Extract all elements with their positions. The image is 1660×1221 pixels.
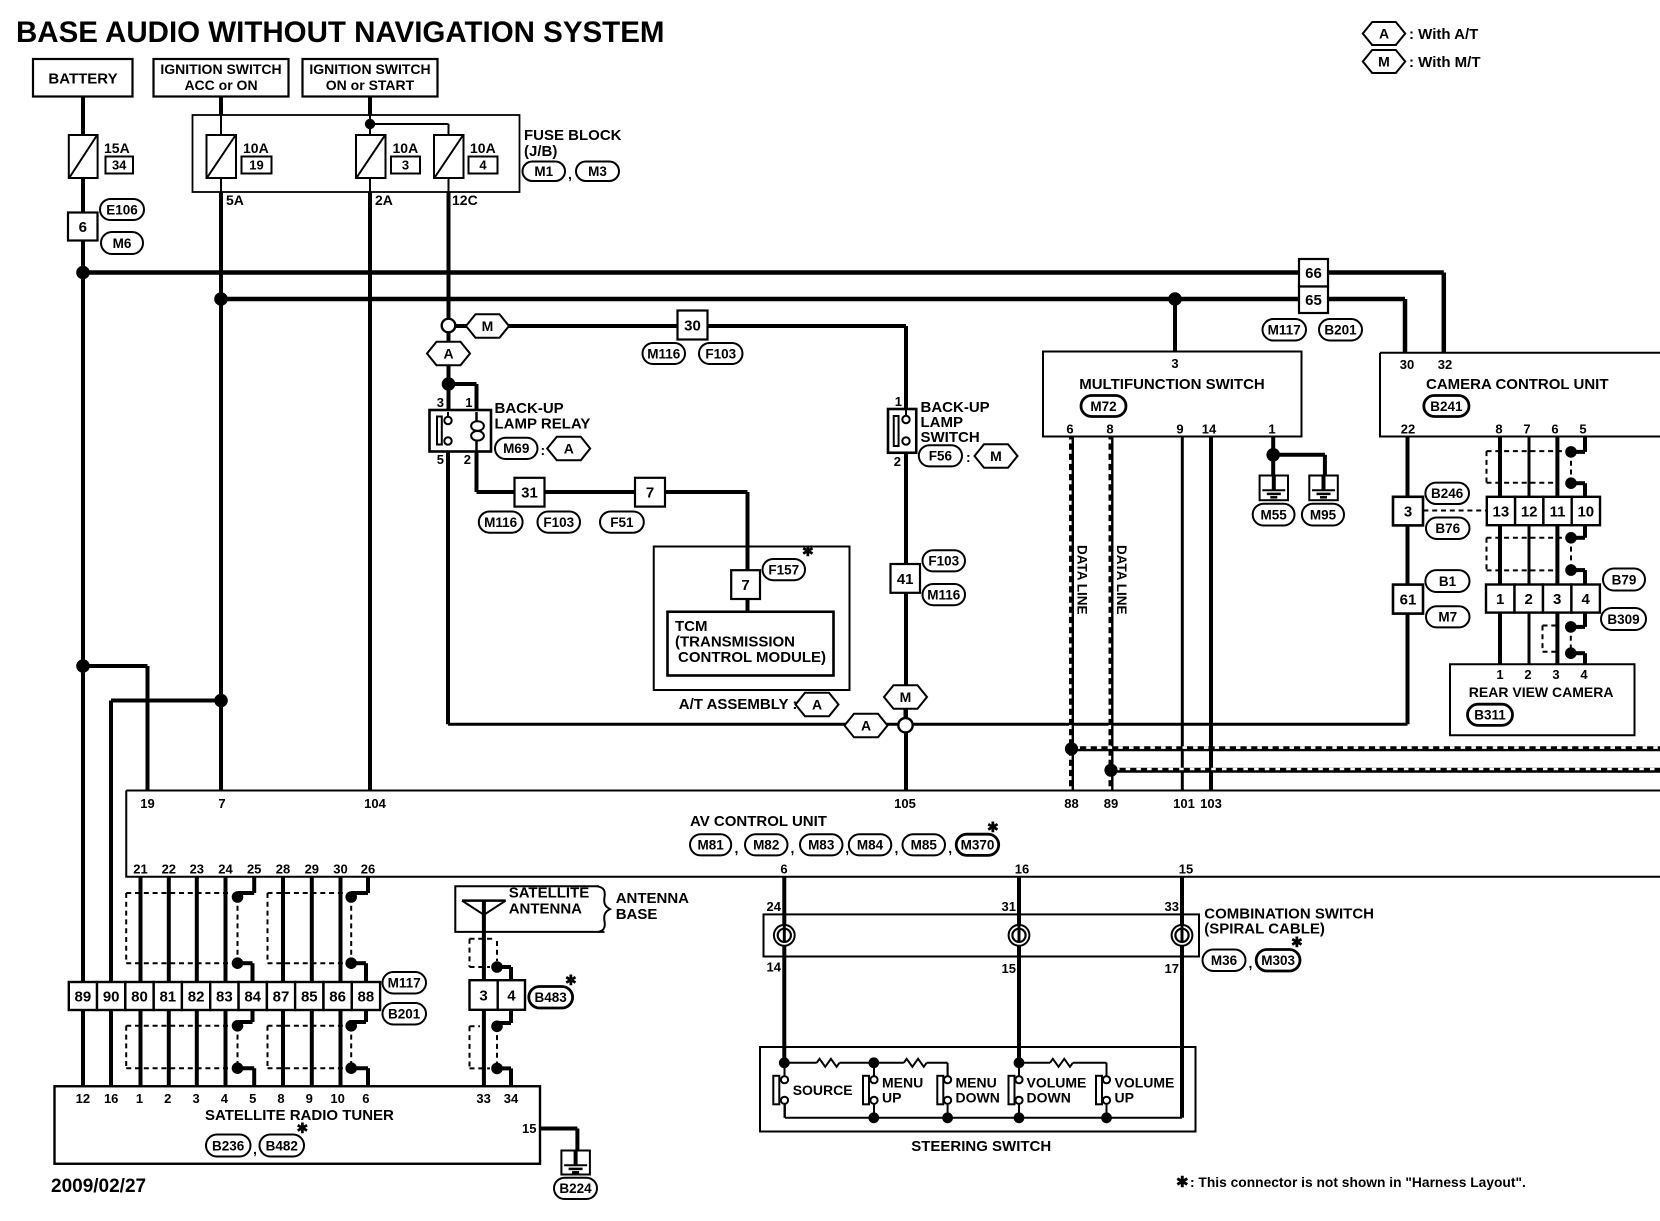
svg-text:86: 86: [329, 988, 346, 1005]
svg-text:1: 1: [895, 394, 902, 409]
spiral cable symbol 1: [774, 925, 795, 946]
svg-text:26: 26: [361, 862, 375, 877]
data line from multifunction pin6: [1069, 437, 1074, 791]
connector oval M116 (switch): [923, 584, 966, 605]
svg-text:B311: B311: [1474, 708, 1506, 723]
wire AV pin15 to combination switch pin33 and steering: [1180, 877, 1184, 1118]
switch VOLUME DOWN: [1009, 1076, 1015, 1105]
wire to tuner x=168.8: [167, 1010, 171, 1086]
wire 84-5 shield drain jog: [251, 1010, 255, 1022]
svg-text:84: 84: [244, 988, 261, 1005]
connector oval B241: [1424, 396, 1469, 417]
wire multifunction pin1 to grounds: [1271, 437, 1275, 477]
svg-text:ANTENNA: ANTENNA: [616, 890, 689, 907]
back-up lamp switch F56: [888, 409, 916, 453]
svg-text:10A: 10A: [393, 140, 419, 156]
connector row 89 90 80 81 82 83 84 87 85 86 88: [69, 982, 97, 1010]
fuse rating box 4: [469, 157, 498, 174]
svg-text:A/T ASSEMBLY :: A/T ASSEMBLY :: [679, 696, 798, 713]
svg-text:UP: UP: [882, 1090, 901, 1106]
svg-text:8: 8: [1495, 422, 1502, 437]
connector oval E106: [100, 199, 144, 220]
shield dashed box camera upper: [1487, 450, 1564, 452]
wire camera pin5 jog with shield drains: [1583, 437, 1587, 452]
wire ACC branch to x=111 down: [111, 699, 221, 703]
wire tuner pin15 to ground B224: [540, 1127, 577, 1131]
wire multifunction pin3 tap: [1173, 299, 1177, 352]
wire relay pin5 down and long horizontal y=724.25: [446, 452, 450, 725]
svg-text:34: 34: [112, 158, 127, 173]
svg-text:M: M: [990, 448, 1002, 464]
svg-text:30: 30: [333, 862, 347, 877]
svg-text:IGNITION SWITCH: IGNITION SWITCH: [309, 61, 430, 77]
wire relay pin2 to TCM: [475, 452, 479, 493]
connector oval M95: [1302, 504, 1344, 526]
svg-text:31: 31: [521, 485, 538, 502]
svg-text:A: A: [812, 697, 822, 713]
svg-text:,: ,: [948, 840, 952, 856]
spiral cable symbol 2: [1009, 925, 1030, 946]
shield dashed box tuner right: [268, 1025, 346, 1027]
junction dot ACC branch: [214, 694, 228, 708]
svg-text:MENU: MENU: [882, 1075, 923, 1091]
svg-text:B236: B236: [212, 1138, 245, 1153]
bus2 ACC y=299: [221, 297, 1405, 302]
svg-text:(SPIRAL CABLE): (SPIRAL CABLE): [1204, 921, 1325, 938]
svg-text:21: 21: [133, 862, 147, 877]
svg-text:104: 104: [364, 796, 386, 811]
wire to tuner x=311.8: [310, 1010, 314, 1086]
wire relay pin1 jog: [449, 382, 477, 386]
box 30 on M wire: [678, 311, 708, 340]
svg-text:2A: 2A: [375, 192, 393, 208]
svg-text:3: 3: [402, 158, 409, 173]
svg-text:88: 88: [1064, 796, 1078, 811]
connector row 13 12 11 10: [1487, 497, 1515, 525]
svg-text:M69: M69: [503, 441, 529, 456]
connector oval B79: [1603, 569, 1645, 591]
connector ovals M81 M82 M83 M84 M85 M370: [690, 834, 731, 855]
svg-text:,: ,: [1249, 955, 1253, 971]
fuse block (J/B) box: [193, 115, 520, 192]
svg-text:24: 24: [767, 899, 782, 914]
connector oval M116: [643, 343, 686, 364]
connector oval M36: [1203, 950, 1246, 972]
wire to tuner x=83.0: [81, 1010, 85, 1086]
svg-text:1: 1: [465, 395, 472, 410]
svg-text:B201: B201: [1324, 323, 1357, 338]
svg-text:14: 14: [767, 960, 782, 975]
svg-text:STEERING SWITCH: STEERING SWITCH: [911, 1138, 1051, 1155]
steering junction dots top: [779, 1057, 790, 1068]
svg-text:103: 103: [1200, 796, 1222, 811]
svg-text:ON or START: ON or START: [326, 77, 415, 93]
resistor R2: [874, 1062, 904, 1064]
connector oval M72: [1081, 396, 1126, 417]
svg-text:12C: 12C: [452, 192, 478, 208]
svg-text:34: 34: [504, 1091, 519, 1106]
wire antenna shield drain to cell4: [497, 965, 511, 969]
svg-text:24: 24: [218, 862, 233, 877]
wire backup switch pin2 down to AV pin105: [904, 453, 908, 791]
wire to tuner x=283.0: [281, 1010, 285, 1086]
connector oval B483 with star: [529, 987, 573, 1009]
data line horizontal bus 89: [1111, 768, 1660, 773]
svg-text:✱: ✱: [1176, 1174, 1189, 1191]
svg-text:ACC or ON: ACC or ON: [184, 77, 257, 93]
svg-text:B76: B76: [1435, 521, 1460, 536]
fuse 15A battery: [69, 135, 98, 178]
connector oval B246: [1425, 483, 1469, 504]
wire M-branch to 30 and backup switch pin1: [455, 324, 906, 328]
svg-text:(J/B): (J/B): [524, 143, 557, 160]
svg-text:2: 2: [1525, 591, 1533, 608]
svg-text:MENU: MENU: [956, 1075, 997, 1091]
svg-text:M116: M116: [484, 515, 518, 530]
svg-text:MULTIFUNCTION SWITCH: MULTIFUNCTION SWITCH: [1079, 376, 1265, 393]
svg-text:1: 1: [136, 1091, 143, 1106]
svg-text::: :: [541, 442, 546, 458]
svg-text:85: 85: [301, 988, 318, 1005]
svg-text:SATELLITE: SATELLITE: [509, 885, 590, 902]
svg-text:✱: ✱: [1291, 934, 1303, 950]
legend M : With M/T: [1363, 50, 1405, 73]
svg-text:82: 82: [188, 988, 205, 1005]
box 65 on bus2: [1299, 287, 1328, 314]
box 61 on pin22 wire: [1393, 585, 1423, 614]
svg-text:✱: ✱: [802, 543, 814, 559]
shield dashed box camera lower: [1487, 537, 1564, 539]
svg-text:33: 33: [1165, 899, 1179, 914]
shield dashed box AV left: [126, 892, 231, 894]
svg-text:6: 6: [79, 219, 87, 236]
open junction circle 12C/M: [442, 319, 456, 333]
wire steering bottom bus: [784, 1104, 786, 1118]
svg-text:23: 23: [190, 862, 204, 877]
fuse 10A/19: [207, 135, 237, 178]
wire AV pin 22-81: [167, 877, 171, 982]
spiral cable symbol 3: [1172, 925, 1193, 946]
satellite radio tuner box: [55, 1086, 541, 1164]
shield drain dots camera: [1565, 446, 1577, 458]
switch MENU UP: [863, 1076, 869, 1105]
svg-text:2: 2: [894, 454, 901, 469]
svg-text:3: 3: [437, 395, 444, 410]
dashed link 3 to 13 (B246/B76): [1423, 510, 1486, 512]
svg-text:6: 6: [362, 1091, 369, 1106]
svg-text:30: 30: [1400, 357, 1414, 372]
box 66 on bus1: [1299, 259, 1328, 287]
connector oval M3: [576, 162, 619, 182]
svg-text:10: 10: [1577, 503, 1594, 520]
wire AV pin 24-83: [224, 877, 228, 982]
svg-text:CONTROL MODULE): CONTROL MODULE): [678, 649, 826, 666]
svg-text:BASE AUDIO WITHOUT NAVIGATION: BASE AUDIO WITHOUT NAVIGATION SYSTEM: [16, 16, 664, 49]
svg-text:B482: B482: [266, 1138, 298, 1153]
svg-text:12: 12: [76, 1091, 90, 1106]
wire antenna mast / coax to tuner pin33: [482, 901, 486, 1086]
ignition switch ON or START box: [303, 59, 438, 97]
TCM outer A/T assembly box: [654, 547, 850, 691]
svg-text:25: 25: [247, 862, 261, 877]
connector oval M117: [1263, 319, 1307, 341]
svg-text:VOLUME: VOLUME: [1027, 1075, 1087, 1091]
svg-text:,: ,: [253, 1141, 257, 1157]
svg-text:A: A: [1379, 26, 1389, 42]
svg-text:M85: M85: [911, 838, 938, 853]
svg-text:11: 11: [1550, 503, 1566, 520]
hexagon A for relay: [547, 437, 590, 460]
wire ACC vertical x=221: [219, 96, 223, 115]
svg-text:6: 6: [1551, 422, 1558, 437]
wire cell4 drain jog to tuner pin34: [509, 1010, 513, 1023]
svg-text:1: 1: [1496, 667, 1503, 682]
rear view camera box: [1450, 664, 1635, 735]
svg-text:19: 19: [140, 796, 154, 811]
svg-text:: With A/T: : With A/T: [1409, 26, 1478, 43]
svg-text:F51: F51: [610, 515, 634, 530]
junction dot battery branch: [76, 659, 90, 673]
svg-text:6: 6: [780, 862, 787, 877]
svg-text:4: 4: [1582, 591, 1591, 608]
svg-text:90: 90: [103, 988, 120, 1005]
svg-text:14: 14: [1202, 422, 1217, 437]
svg-text:7: 7: [646, 485, 654, 502]
hexagon M above junction: [884, 685, 927, 709]
connector oval B482 with star: [260, 1135, 305, 1157]
svg-text:28: 28: [276, 862, 290, 877]
svg-text:LAMP RELAY: LAMP RELAY: [495, 416, 591, 433]
svg-text:5A: 5A: [226, 192, 244, 208]
wire battery vertical x=83: [81, 96, 85, 135]
svg-text:B246: B246: [1431, 486, 1464, 501]
svg-text:8: 8: [1106, 422, 1113, 437]
svg-text:4: 4: [1580, 667, 1588, 682]
box 31: [515, 478, 545, 507]
steering bottom bus dots: [868, 1112, 879, 1123]
svg-text:32: 32: [1438, 357, 1452, 372]
svg-text:M81: M81: [697, 838, 724, 853]
svg-text:✱: ✱: [297, 1120, 309, 1136]
svg-text:81: 81: [159, 988, 176, 1005]
svg-text:CAMERA CONTROL UNIT: CAMERA CONTROL UNIT: [1426, 376, 1609, 393]
wire to tuner x=140.5: [139, 1010, 143, 1086]
connector oval F103 (switch): [923, 550, 966, 571]
connector oval B236: [206, 1135, 251, 1157]
AV control unit box: [126, 791, 1660, 877]
steering switch box: [760, 1047, 1196, 1132]
junction dot battery bus1: [76, 266, 90, 280]
ground symbol M55: [1260, 476, 1288, 501]
svg-text:B201: B201: [388, 1007, 421, 1022]
legend A : With A/T: [1363, 22, 1405, 45]
svg-text:2: 2: [1524, 667, 1531, 682]
wire AV pin 23-82: [195, 877, 199, 982]
svg-text:16: 16: [1015, 862, 1029, 877]
wire to tuner x=196.8: [195, 1010, 199, 1086]
svg-text:87: 87: [273, 988, 290, 1005]
wire AV pin16 to combination switch pin31: [1017, 877, 1021, 1063]
svg-text:VOLUME: VOLUME: [1115, 1075, 1175, 1091]
connector oval F103 (relay): [538, 512, 581, 533]
junction dot fuse jog: [365, 119, 375, 129]
data line horizontal bus 88: [1072, 746, 1660, 751]
svg-text:M: M: [1378, 54, 1390, 70]
svg-text:88: 88: [358, 988, 375, 1005]
connector oval B309: [1601, 608, 1646, 630]
svg-text:4: 4: [221, 1091, 229, 1106]
svg-text:TCM: TCM: [675, 618, 708, 635]
svg-text:BATTERY: BATTERY: [48, 71, 117, 88]
fuse 10A/4: [434, 135, 464, 178]
svg-text:3: 3: [192, 1091, 199, 1106]
svg-text:IGNITION SWITCH: IGNITION SWITCH: [160, 61, 281, 77]
svg-text:M3: M3: [588, 164, 607, 179]
connector oval B76: [1426, 518, 1470, 540]
wire camera pin7 chain: [1528, 437, 1531, 497]
svg-text:,: ,: [791, 840, 795, 856]
connector oval M7: [1426, 606, 1470, 627]
connector oval F56: [919, 445, 962, 466]
connector oval B311: [1468, 704, 1513, 725]
svg-text:M6: M6: [113, 236, 132, 251]
connector oval B201: [1319, 319, 1362, 341]
svg-text:29: 29: [305, 862, 319, 877]
svg-text:15A: 15A: [104, 140, 130, 156]
open junction circle AV105: [898, 718, 912, 732]
svg-text:M: M: [482, 318, 494, 334]
connector oval M55: [1253, 504, 1295, 526]
svg-text:M72: M72: [1090, 399, 1116, 414]
svg-text:10A: 10A: [470, 140, 496, 156]
hexagon A TCM: [796, 693, 839, 716]
svg-text:15: 15: [1002, 961, 1016, 976]
svg-text:3: 3: [479, 987, 487, 1004]
ground symbol M95: [1309, 476, 1338, 501]
svg-text:B483: B483: [534, 990, 567, 1005]
connector oval F157 with star: [763, 559, 806, 580]
svg-text:A: A: [861, 718, 871, 734]
svg-text:M303: M303: [1261, 953, 1295, 968]
svg-text:B224: B224: [559, 1181, 592, 1196]
junction dot ground split: [1266, 448, 1280, 462]
wire 88-6 shield drain jog: [364, 1010, 368, 1022]
svg-text:83: 83: [216, 988, 233, 1005]
wire AV pin 21-80: [139, 877, 143, 982]
fuse rating box 34: [106, 157, 134, 174]
svg-text:3: 3: [1552, 667, 1559, 682]
wire to tuner x=225.5: [224, 1010, 228, 1086]
shield drain dots AV: [232, 891, 244, 903]
satellite antenna box with brace edge: [455, 886, 604, 932]
svg-text:7: 7: [741, 577, 749, 594]
resistor R3: [1019, 1062, 1050, 1064]
svg-text:: With M/T: : With M/T: [1409, 54, 1481, 71]
hexagon M for F56: [975, 444, 1018, 468]
svg-text:,: ,: [568, 166, 572, 182]
connector oval B201 (row): [383, 1003, 427, 1025]
svg-text:M117: M117: [1268, 323, 1301, 338]
wire camera pin22 down to horizontal: [1406, 437, 1410, 724]
wire 2A below fuse: [369, 178, 371, 192]
svg-text:FUSE BLOCK: FUSE BLOCK: [524, 127, 622, 144]
box 41: [891, 564, 921, 593]
svg-text:UP: UP: [1115, 1090, 1134, 1106]
connector row 1 2 3 4: [1486, 585, 1515, 613]
svg-text:: This connector is not shown: : This connector is not shown in "Harnes…: [1190, 1175, 1526, 1190]
svg-text:10A: 10A: [243, 140, 269, 156]
svg-text:5: 5: [1579, 422, 1586, 437]
connector oval M303 with star: [1256, 950, 1300, 972]
wire to tuner x=111.0: [109, 1010, 113, 1086]
svg-text:F157: F157: [768, 563, 799, 578]
svg-text:41: 41: [897, 571, 914, 588]
switch SOURCE: [773, 1076, 779, 1105]
svg-text:2: 2: [464, 452, 471, 467]
svg-text:B79: B79: [1612, 572, 1637, 587]
wire AV pin 29-85: [310, 877, 314, 982]
svg-text:65: 65: [1305, 292, 1322, 309]
hexagon A on horizontal wire: [845, 714, 888, 737]
svg-text:9: 9: [1176, 422, 1183, 437]
svg-text:2: 2: [164, 1091, 171, 1106]
svg-text:ANTENNA: ANTENNA: [509, 901, 582, 918]
antenna shield drain dots: [491, 961, 503, 973]
svg-text:101: 101: [1173, 796, 1195, 811]
svg-text:DOWN: DOWN: [956, 1090, 1000, 1106]
svg-text:4: 4: [507, 987, 516, 1004]
svg-text:16: 16: [104, 1091, 118, 1106]
svg-text:F103: F103: [543, 515, 574, 530]
wire ON/START vertical x=370: [368, 96, 372, 115]
svg-text:8: 8: [277, 1091, 284, 1106]
svg-text:22: 22: [162, 862, 176, 877]
svg-text:F103: F103: [928, 554, 959, 569]
switch VOLUME UP: [1096, 1076, 1102, 1105]
hexagon M (with M/T): [466, 314, 509, 338]
svg-text:M1: M1: [534, 164, 553, 179]
svg-text:3: 3: [1404, 504, 1412, 521]
svg-text:F56: F56: [929, 449, 953, 464]
svg-text:13: 13: [1493, 503, 1510, 520]
svg-text:5: 5: [437, 452, 444, 467]
svg-text:30: 30: [684, 317, 701, 334]
svg-text:7: 7: [1523, 422, 1530, 437]
svg-text:22: 22: [1401, 422, 1415, 437]
svg-text:A: A: [443, 346, 453, 362]
svg-text:80: 80: [131, 988, 148, 1005]
box 7: [635, 478, 665, 507]
svg-text:9: 9: [306, 1091, 313, 1106]
svg-text:B241: B241: [1430, 399, 1463, 414]
svg-text:12: 12: [1521, 503, 1538, 520]
resistor R1: [784, 1062, 816, 1064]
shield dashed box antenna upper: [470, 938, 496, 940]
svg-text:DOWN: DOWN: [1027, 1090, 1071, 1106]
shield dashed box AV right: [268, 892, 346, 894]
connector oval M6: [101, 232, 143, 254]
wire AV pin25 shield drain jog: [252, 877, 256, 893]
svg-text:17: 17: [1165, 961, 1179, 976]
svg-text:61: 61: [1400, 592, 1417, 609]
wire camera pin6 chain: [1555, 437, 1559, 497]
back-up lamp relay M69: [430, 410, 492, 452]
svg-text:M116: M116: [647, 346, 681, 361]
svg-text:89: 89: [75, 988, 92, 1005]
wire 12C below fuse: [448, 178, 450, 192]
svg-text::: :: [966, 449, 971, 465]
wire multifunction pin9 to AV 101: [1181, 437, 1184, 791]
